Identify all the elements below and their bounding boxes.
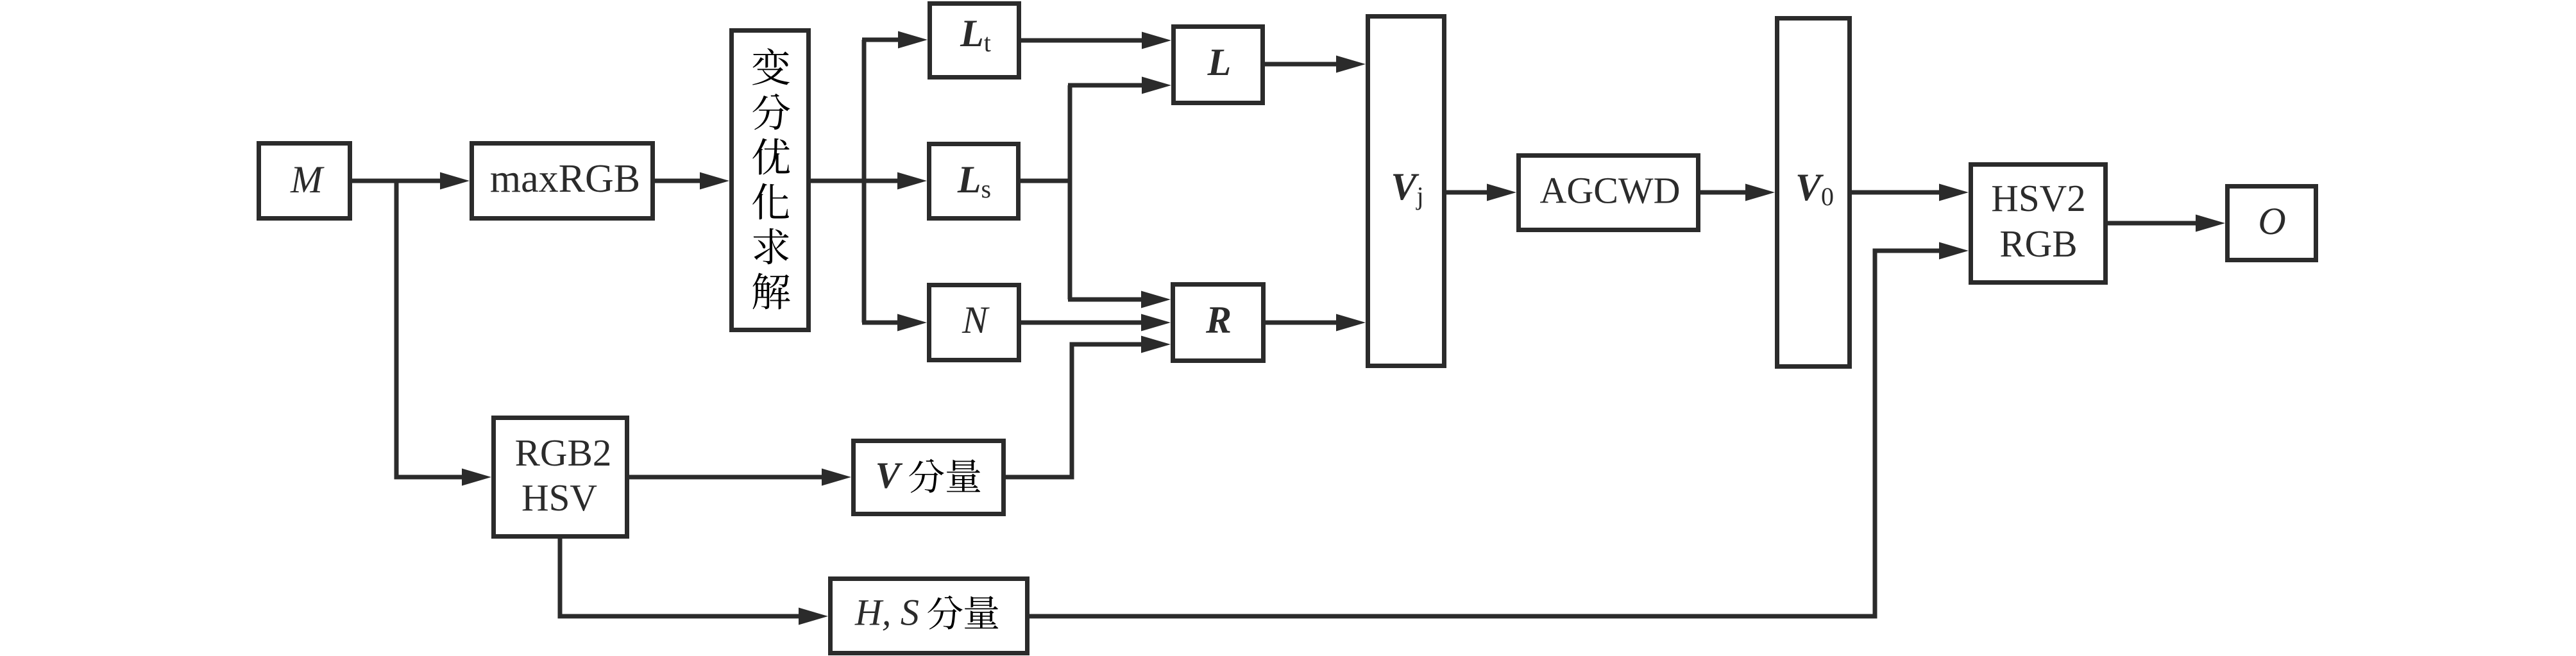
svg-text:AGCWD: AGCWD bbox=[1539, 170, 1680, 212]
block RGB2HSV bbox=[494, 418, 627, 537]
block HSV2RGB bbox=[1971, 165, 2106, 283]
arrowhead into Lt bbox=[898, 31, 928, 49]
wire HSV2RGB to O bbox=[2108, 221, 2201, 226]
arrowhead into HS bbox=[799, 608, 828, 625]
block O bbox=[2228, 187, 2316, 260]
arrowhead into O bbox=[2196, 215, 2225, 232]
block N bbox=[929, 285, 1019, 360]
wire spur to R upper bbox=[1068, 298, 1146, 302]
svg-text:HSV: HSV bbox=[521, 476, 597, 519]
svg-text:V: V bbox=[876, 455, 903, 496]
block Lt bbox=[930, 4, 1019, 78]
label Ls bbox=[957, 158, 991, 203]
svg-text:O: O bbox=[2258, 200, 2285, 242]
arrowhead into R upper bbox=[1141, 291, 1171, 308]
arrowhead into Ls bbox=[897, 172, 927, 190]
wire RGB2HSV down to HS bbox=[560, 539, 804, 616]
block maxRGB bbox=[472, 144, 653, 219]
block HScomponent bbox=[831, 579, 1028, 653]
wire R to Vj bbox=[1266, 321, 1341, 325]
block Ls bbox=[929, 144, 1019, 219]
block L bbox=[1174, 27, 1263, 103]
block M bbox=[259, 144, 350, 219]
label bianfen vertical text 变分优化求解 bbox=[752, 48, 790, 309]
wire Vj to AGCWD bbox=[1446, 190, 1492, 195]
wire spur to N bbox=[862, 321, 902, 325]
arrowhead into RGB2HSV bbox=[462, 469, 491, 486]
arrowhead into R middle bbox=[1141, 314, 1171, 332]
block V0 bbox=[1777, 19, 1850, 367]
wire Ls to junction bbox=[1021, 179, 1070, 183]
block AGCWD bbox=[1519, 156, 1699, 230]
block R bbox=[1173, 285, 1264, 361]
wire Vcomponent up to R bbox=[1006, 344, 1146, 477]
label V component (V fenliang) bbox=[876, 455, 981, 496]
wire RGB2HSV to Vcomponent bbox=[629, 475, 827, 480]
arrowhead into L upper bbox=[1142, 32, 1171, 49]
svg-text:N: N bbox=[962, 299, 990, 341]
svg-text:M: M bbox=[290, 158, 325, 201]
wire M to maxRGB bbox=[352, 179, 444, 183]
label N bbox=[962, 299, 990, 341]
wire HS to HSV2RGB bbox=[1030, 251, 1944, 616]
arrowhead into HSV2RGB lower bbox=[1939, 242, 1969, 260]
svg-text:HSV2: HSV2 bbox=[1991, 177, 2086, 219]
svg-text:H, S: H, S bbox=[854, 592, 919, 634]
arrowhead into HSV2RGB upper bbox=[1939, 184, 1969, 201]
svg-text:RGB2: RGB2 bbox=[515, 432, 612, 474]
block Vj bbox=[1368, 17, 1445, 366]
label AGCWD bbox=[1539, 170, 1680, 212]
label L bbox=[1207, 41, 1232, 83]
wire AGCWD to V0 bbox=[1700, 190, 1750, 195]
arrowhead into Vj lower bbox=[1336, 314, 1366, 332]
wire spur to Lt bbox=[862, 38, 903, 42]
label RGB (line2) bbox=[1999, 223, 2077, 265]
arrowhead into Vcomponent bbox=[822, 469, 851, 486]
arrowhead into bianfen box bbox=[700, 172, 729, 190]
label maxRGB bbox=[490, 157, 640, 201]
label M bbox=[290, 158, 325, 201]
svg-text:maxRGB: maxRGB bbox=[490, 157, 640, 201]
wire maxRGB to bianfen box bbox=[655, 179, 705, 183]
label O bbox=[2258, 200, 2285, 242]
block bianfen (variational optimization) bbox=[732, 31, 809, 330]
arrowhead into L lower bbox=[1142, 77, 1171, 94]
wire L to Vj bbox=[1265, 62, 1341, 67]
wire branch from M down to RGB2HSV bbox=[396, 181, 468, 477]
svg-text:R: R bbox=[1205, 299, 1232, 341]
wire vertical at 1668 bbox=[1068, 85, 1072, 299]
wire Lt to L bbox=[1021, 38, 1147, 43]
arrowhead into R lower bbox=[1141, 336, 1171, 353]
label R bbox=[1205, 299, 1232, 341]
label H,S component (H,S fenliang) bbox=[854, 592, 998, 634]
label V0 bbox=[1795, 166, 1834, 211]
arrowhead into N bbox=[897, 314, 927, 332]
svg-text:L: L bbox=[1207, 41, 1232, 83]
svg-text:RGB: RGB bbox=[1999, 223, 2077, 265]
arrowhead into maxRGB bbox=[440, 172, 470, 190]
arrowhead into Vj upper bbox=[1336, 56, 1366, 73]
wire branch vertical at 1347 bbox=[862, 40, 867, 323]
block Vcomponent bbox=[854, 441, 1004, 514]
wire spur to L lower bbox=[1068, 83, 1147, 88]
label HSV2 bbox=[1991, 177, 2086, 219]
arrowhead into AGCWD bbox=[1487, 184, 1516, 201]
label RGB2 bbox=[515, 432, 612, 474]
label Vj bbox=[1391, 165, 1423, 210]
arrowhead into V0 bbox=[1745, 184, 1775, 201]
label Lt bbox=[960, 12, 991, 57]
wire bianfen to Ls bbox=[811, 179, 902, 183]
wire V0 to HSV2RGB bbox=[1852, 190, 1944, 195]
wire N to R bbox=[1021, 321, 1146, 325]
label HSV (line2) bbox=[521, 476, 597, 519]
